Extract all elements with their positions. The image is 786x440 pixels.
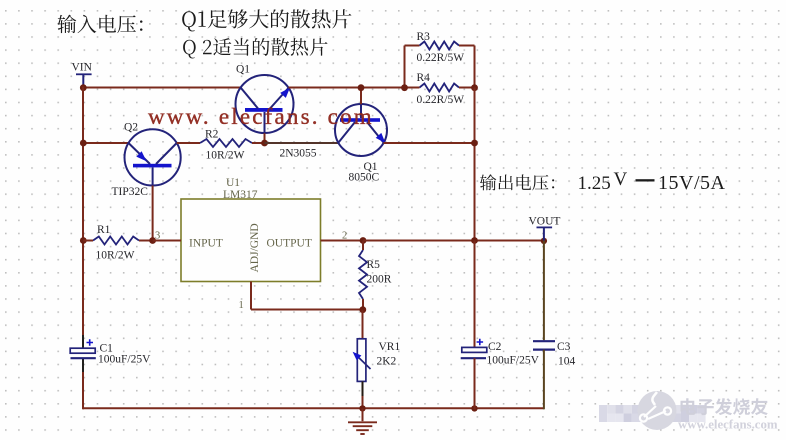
svg-text:10R/2W: 10R/2W <box>96 250 135 262</box>
node VR1/rail junction <box>359 405 365 411</box>
svg-text:1.25: 1.25 <box>578 173 611 194</box>
node VIN junction <box>80 84 87 91</box>
svg-text:R2: R2 <box>205 129 219 141</box>
capacitor C1 <box>70 339 96 358</box>
svg-text:8050C: 8050C <box>349 172 380 184</box>
wire LM317 ADJ pin 1 <box>251 282 363 310</box>
svg-text:VOUT: VOUT <box>529 216 561 228</box>
svg-text:INPUT: INPUT <box>189 238 223 250</box>
wire right rail down to output node <box>474 88 476 241</box>
wire R3 loop right riser <box>459 46 475 88</box>
note output voltage (Chinese) <box>480 174 554 190</box>
svg-text:3: 3 <box>155 231 160 242</box>
svg-text:C3: C3 <box>557 341 571 353</box>
resistor R4 <box>420 84 460 92</box>
wire Q1 base node to Q3 collector <box>265 142 339 144</box>
node VOUT junction <box>541 238 547 244</box>
node R5 top junction <box>360 237 367 244</box>
svg-text:V: V <box>614 169 628 190</box>
svg-text:1: 1 <box>239 300 244 311</box>
svg-text:VIN: VIN <box>72 62 93 74</box>
potentiometer VR1 <box>353 339 371 382</box>
resistor R5 <box>359 241 367 310</box>
svg-text:U1: U1 <box>226 177 240 189</box>
op-amp regulator U1 LM317 body <box>181 199 321 282</box>
port VIN <box>76 73 92 87</box>
node C2/rail junction <box>471 405 477 411</box>
svg-text:2K2: 2K2 <box>377 356 397 368</box>
svg-text:2N3055: 2N3055 <box>280 148 317 160</box>
resistor R3 <box>420 42 460 50</box>
node R3/R4 right junction <box>471 84 478 91</box>
wire Q1 emitter to R3/R4 node <box>288 87 404 89</box>
svg-text:104: 104 <box>558 356 576 368</box>
wire Q1 base to node <box>264 133 266 144</box>
wire VIN to Q1 collector (top rail) <box>83 87 240 89</box>
svg-text:100uF/25V: 100uF/25V <box>487 355 540 367</box>
svg-text:OUTPUT: OUTPUT <box>267 238 312 250</box>
svg-text:C2: C2 <box>488 341 502 353</box>
svg-text:www. elecfans. com: www. elecfans. com <box>148 104 374 129</box>
svg-text:15V/5A: 15V/5A <box>658 172 726 194</box>
node Q1 base junction <box>261 140 268 147</box>
svg-text:0.22R/5W: 0.22R/5W <box>417 52 465 64</box>
node R1 left junction on rail <box>80 237 87 244</box>
svg-text:Q2: Q2 <box>124 122 138 134</box>
wire input node to LM317 pin 3 <box>153 240 181 242</box>
wire C3 to rail corner <box>543 350 545 410</box>
wire C2 to rail <box>474 358 476 409</box>
wire VOUT node down to C3 <box>543 241 545 341</box>
svg-text:TIP32C: TIP32C <box>112 186 149 198</box>
transistor Q1b 8050C (NPN driver) <box>335 104 387 156</box>
note Q1 heatsink line 1 (Chinese) <box>182 9 351 31</box>
ground symbol <box>348 408 377 434</box>
wire LM317 pin 2 to R5 node <box>321 240 364 242</box>
svg-text:R3: R3 <box>417 31 431 43</box>
node left rail / Q2 emitter junction <box>80 140 87 147</box>
note input voltage (Chinese) <box>58 15 143 34</box>
svg-text:0.22R/5W: 0.22R/5W <box>417 94 465 106</box>
svg-text:200R: 200R <box>367 274 392 286</box>
svg-text:www.elecfans.com: www.elecfans.com <box>678 418 778 432</box>
svg-text:100uF/25V: 100uF/25V <box>98 354 151 366</box>
svg-text:R5: R5 <box>367 259 381 271</box>
wire R1 stubs <box>83 240 153 242</box>
svg-text:VR1: VR1 <box>379 341 401 353</box>
wire VR1 to ground rail <box>362 381 364 409</box>
wire Q2 base down to input node <box>152 186 154 241</box>
capacitor C3 <box>533 341 555 349</box>
wire left rail upper <box>82 87 84 348</box>
wire 8050C emitter to right rail <box>384 142 475 144</box>
note Q2 heatsink line 2 (Chinese) <box>183 38 327 59</box>
resistor R2 <box>200 139 252 147</box>
wire R2 to Q1 base node <box>252 142 265 144</box>
svg-text:2: 2 <box>342 231 347 242</box>
wire R3 loop left riser <box>405 46 420 88</box>
logo text (Chinese) <box>681 398 768 415</box>
node output/right-rail junction <box>471 237 478 244</box>
svg-text:10R/2W: 10R/2W <box>206 150 245 162</box>
wire left rail lower <box>82 358 84 410</box>
wire ground rail (bottom) <box>83 407 544 409</box>
svg-text:ADJ/GND: ADJ/GND <box>249 223 261 272</box>
node R3/R4 left junction <box>401 84 408 91</box>
wire Q2 collector to R2 <box>177 142 200 144</box>
node 8050C base junction on top rail <box>358 84 365 91</box>
wire left rail to Q2 emitter <box>83 142 129 144</box>
node input pin junction <box>149 237 156 244</box>
wire output node down to C2 <box>474 241 476 348</box>
wire 8050C base up to top rail <box>360 88 362 105</box>
svg-text:R1: R1 <box>97 224 111 236</box>
node ADJ/R5/VR1 junction <box>359 306 366 313</box>
wire output node across <box>363 240 544 242</box>
port VOUT <box>537 227 553 241</box>
capacitor C2 <box>461 339 487 359</box>
resistor R1 <box>93 237 139 245</box>
transistor Q2 TIP32C (PNP) <box>125 129 181 185</box>
node right rail / emitter junction <box>471 140 478 147</box>
svg-text:Q1: Q1 <box>236 64 250 76</box>
logo circle icon <box>638 391 677 430</box>
wire R4 stubs <box>405 87 475 89</box>
transistor Q1 2N3055 (NPN pass) <box>236 75 294 133</box>
logo mosaic blur patch <box>599 405 706 422</box>
wire node to VR1 <box>362 310 364 339</box>
svg-text:LM317: LM317 <box>223 189 258 201</box>
svg-text:R4: R4 <box>417 72 431 84</box>
